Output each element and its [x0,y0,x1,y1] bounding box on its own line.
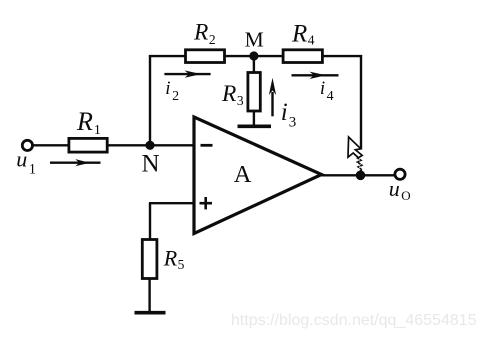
svg-text:R2: R2 [193,19,216,46]
wire feedback from N up [149,55,151,145]
svg-text:M: M [245,28,264,52]
wire R5 to ground [148,279,150,313]
svg-text:uO: uO [389,176,411,203]
op-amp non-inverting input marker [200,197,213,209]
resistor R3 [248,73,260,112]
current arrow under R1 [50,159,101,166]
op-amp A [194,117,322,234]
node output junction [356,171,366,181]
terminal u1 [22,140,32,150]
wire u1 to R1 [33,144,69,146]
svg-text:i2: i2 [165,78,179,104]
wire right vertical [360,55,362,149]
svg-text:i3: i3 [281,99,296,131]
node N [145,141,154,150]
wire non-inverting input horizontal [149,202,194,204]
svg-text:R3: R3 [221,81,244,108]
svg-text:N: N [142,151,160,178]
svg-text:u1: u1 [16,146,36,177]
svg-text:i4: i4 [320,78,334,104]
ground below R3 [238,125,272,129]
mouse cursor [348,137,362,171]
ground below R5 [135,311,166,315]
wire R2 to M [225,55,254,57]
wire R3 to ground [253,111,255,126]
wire M to R4 [254,55,283,57]
wire R4 to top-right corner [322,55,362,57]
svg-text:A: A [234,161,252,188]
svg-text:R5: R5 [163,246,185,273]
current arrow i3 [269,78,276,117]
resistor R4 [283,50,322,63]
svg-text:R4: R4 [291,20,315,47]
wire M down to R3 [253,56,255,73]
resistor R2 [186,50,225,63]
current arrow i2 [164,70,210,77]
terminal uO [395,169,405,179]
wire down to R5 [149,203,151,240]
wire top left segment [149,55,186,57]
node M [249,51,258,60]
current arrow i4 [292,72,339,79]
wire R1 to op-amp [107,144,194,146]
resistor R1 [69,138,107,152]
svg-text:R1: R1 [76,107,101,138]
resistor R5 [142,240,157,279]
svg-text:https://blog.csdn.net/qq_46554: https://blog.csdn.net/qq_46554815 [231,312,477,329]
wire output [322,174,395,176]
op-amp inverting input marker [201,144,213,147]
